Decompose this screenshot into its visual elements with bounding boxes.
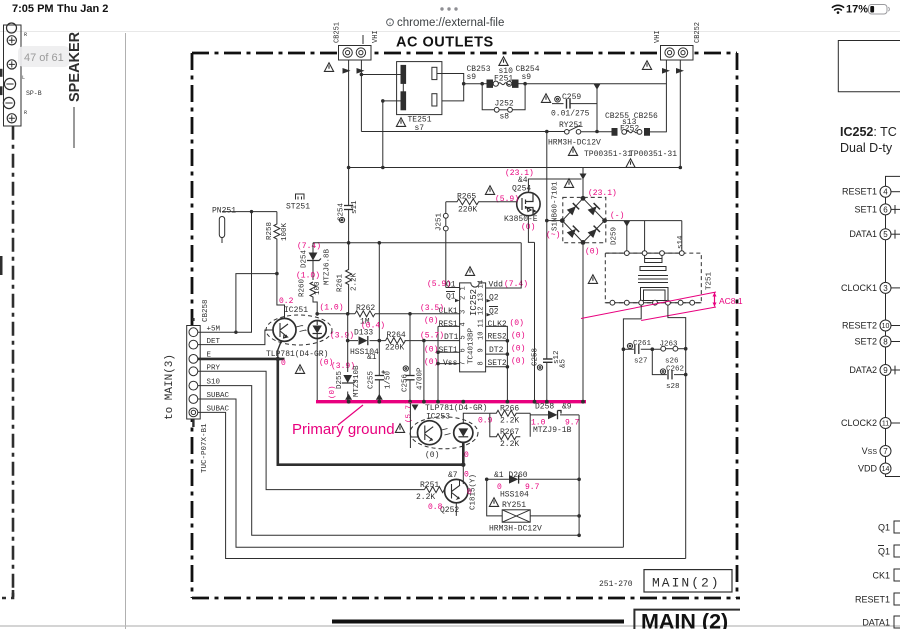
connector CB251 — [334, 22, 381, 60]
svg-text:7: 7 — [883, 447, 888, 456]
svg-text:VSS: VSS — [862, 446, 878, 456]
svg-text:RESET1: RESET1 — [855, 595, 890, 605]
capacitor C262 — [652, 349, 687, 391]
sub board wires from T251 — [623, 305, 685, 558]
resistor R260 — [299, 278, 323, 315]
left frame dash-dot border — [12, 126, 15, 598]
svg-text:TP00351-31: TP00351-31 — [584, 150, 632, 159]
svg-text:S1NB60-7101: S1NB60-7101 — [552, 181, 560, 231]
ground rail (magenta primary ground) — [316, 400, 586, 403]
svg-text:D254: D254 — [301, 249, 309, 268]
warning triangle s10 — [499, 57, 508, 66]
svg-text:2.2K: 2.2K — [500, 440, 519, 449]
svg-text:s9: s9 — [467, 73, 477, 82]
svg-text:&5: &5 — [560, 358, 568, 368]
svg-text:R260: R260 — [299, 278, 307, 297]
svg-text:14: 14 — [882, 466, 890, 473]
resistor R266 — [490, 405, 530, 426]
battery icon — [869, 5, 888, 15]
svg-text:SET1: SET1 — [439, 346, 458, 355]
svg-text:MTZJ10B: MTZJ10B — [353, 365, 361, 397]
svg-text:(3.5): (3.5) — [420, 304, 444, 313]
svg-text:(0): (0) — [425, 451, 439, 460]
svg-text:HRM3H-DC12V: HRM3H-DC12V — [489, 525, 542, 534]
svg-text:DT2: DT2 — [489, 346, 504, 355]
svg-text:SPEAKER: SPEAKER — [67, 31, 83, 102]
svg-text:0.8: 0.8 — [428, 503, 443, 512]
svg-text:6: 6 — [460, 348, 468, 352]
wire fuse to C259 node — [525, 83, 666, 85]
Primary ground label — [338, 405, 363, 425]
resistor R261 — [337, 213, 359, 314]
svg-text:HRM3H-DC12V: HRM3H-DC12V — [548, 139, 601, 148]
svg-text:(0): (0) — [329, 385, 337, 399]
svg-text:(0): (0) — [510, 319, 524, 328]
capacitor C256 — [402, 366, 425, 392]
svg-text:R: R — [24, 32, 27, 38]
svg-text:Q2: Q2 — [489, 294, 499, 303]
svg-text:11: 11 — [478, 319, 486, 327]
svg-text:RY251: RY251 — [502, 501, 526, 510]
lamp PN251 — [212, 207, 236, 244]
wire CB251pin2 to relay line — [361, 131, 565, 133]
transistor Q252 — [428, 465, 478, 516]
connector CB252 — [654, 22, 702, 60]
terminal - — [3, 97, 14, 108]
bridge left to rail — [547, 220, 563, 222]
capacitor C254 — [338, 168, 360, 223]
svg-text:Dual D-ty: Dual D-ty — [840, 141, 893, 155]
svg-text:10: 10 — [882, 323, 890, 330]
svg-text:s14: s14 — [677, 235, 685, 249]
wire CB252 pin2 down — [679, 60, 681, 168]
svg-text:Thu Jan 2: Thu Jan 2 — [57, 3, 108, 15]
svg-text:0: 0 — [464, 451, 469, 460]
wire arrows CB251 — [343, 68, 365, 74]
svg-text:(~): (~) — [546, 231, 560, 240]
svg-text:CB252: CB252 — [694, 22, 702, 43]
wire CB251 pin1 down — [348, 60, 350, 168]
svg-text:11: 11 — [882, 421, 889, 428]
pin CLOCK1 3 — [841, 282, 900, 293]
rail x534.5 Vdd box — [534, 242, 536, 401]
svg-text:4: 4 — [883, 188, 888, 197]
toolbar hairline — [0, 31, 900, 33]
svg-text:PN251: PN251 — [212, 207, 236, 216]
zener D255 — [329, 365, 361, 399]
transistor Q254 — [504, 176, 540, 232]
svg-text:Primary ground: Primary ground — [292, 421, 395, 438]
main schematic dash-dot frame — [192, 52, 737, 55]
resistor R265 — [446, 193, 517, 215]
svg-text:D259: D259 — [611, 227, 619, 245]
svg-text:8: 8 — [883, 338, 888, 347]
svg-text:2.2K: 2.2K — [500, 417, 519, 426]
pin DATA1 5 — [849, 229, 900, 240]
wifi icon — [832, 5, 843, 14]
svg-text:D255: D255 — [336, 370, 344, 389]
Q254 source wire — [528, 216, 534, 243]
diode D258 — [530, 403, 579, 436]
svg-text:&1: &1 — [367, 353, 377, 362]
svg-text:(3.9): (3.9) — [331, 362, 355, 371]
capacitor C261 — [622, 340, 661, 366]
pin CLOCK2 11 — [841, 418, 900, 429]
svg-text:s26: s26 — [665, 358, 679, 366]
svg-text:F251: F251 — [494, 75, 513, 84]
svg-text:Q1: Q1 — [446, 293, 456, 302]
svg-text:SET1: SET1 — [854, 204, 877, 214]
DATA1 list row — [862, 616, 900, 628]
svg-text:RESET1: RESET1 — [842, 187, 877, 197]
IC251 emitter to E wire — [278, 341, 282, 359]
right return rail — [578, 415, 580, 535]
svg-text:0.2: 0.2 — [279, 297, 294, 306]
MAIN (2) page title box — [634, 610, 740, 629]
svg-text:DATA1: DATA1 — [849, 229, 877, 239]
svg-text:9: 9 — [478, 348, 486, 352]
svg-text:L: L — [22, 75, 25, 81]
pin SET1 6 — [854, 204, 900, 215]
Q1 list row — [878, 521, 900, 533]
svg-text:1/50: 1/50 — [385, 370, 393, 389]
svg-text:TC4013BP: TC4013BP — [468, 327, 476, 364]
svg-text:C261: C261 — [633, 340, 652, 348]
svg-text:(0): (0) — [511, 345, 525, 354]
bridge rectifier S1NB60-7101 — [546, 181, 624, 257]
vertical R261 node to D255 — [347, 314, 349, 401]
svg-text:(0): (0) — [424, 358, 438, 367]
svg-text:(3.9): (3.9) — [330, 332, 354, 341]
zener D254 — [296, 242, 332, 285]
left frame bottom corner — [0, 590, 13, 598]
pink AC8.1 annotation — [581, 292, 743, 321]
status bar center dots — [440, 7, 443, 10]
svg-text:C256: C256 — [402, 373, 410, 392]
svg-text:s8: s8 — [500, 113, 510, 122]
optocoupler IC253 — [406, 400, 493, 460]
svg-text:VHI: VHI — [654, 30, 662, 43]
svg-text:220K: 220K — [385, 344, 404, 353]
svg-text:CB251: CB251 — [334, 22, 342, 43]
svg-text:0.01/275: 0.01/275 — [551, 110, 590, 119]
svg-text:SET2: SET2 — [854, 337, 877, 347]
capacitor C259 — [551, 89, 597, 132]
svg-text:(1.0): (1.0) — [320, 304, 344, 313]
RESET1 list row — [855, 593, 900, 605]
warning triangle C259 — [541, 94, 550, 103]
wire CB251 pin2 down — [360, 60, 362, 132]
transformer T251 — [605, 251, 713, 305]
wire arrows CB252 — [662, 68, 684, 74]
svg-text:3: 3 — [460, 310, 468, 314]
svg-text:s28: s28 — [666, 383, 680, 391]
svg-text:7: 7 — [460, 361, 468, 365]
svg-text:R264: R264 — [387, 331, 406, 340]
svg-text:(0.4): (0.4) — [361, 322, 385, 331]
wire CB252 pin1 down — [665, 60, 667, 132]
svg-text:IC251: IC251 — [284, 306, 308, 315]
svg-text:MAIN(2): MAIN(2) — [652, 576, 721, 591]
IC pin diagram frame — [886, 176, 900, 476]
fuse F252 — [605, 112, 666, 135]
svg-text:VDD: VDD — [858, 464, 878, 474]
svg-text:CLOCK1: CLOCK1 — [841, 283, 877, 293]
pin VDD 14 — [858, 463, 891, 474]
svg-text:C258: C258 — [532, 348, 540, 366]
wire DET — [198, 330, 273, 345]
svg-text:s11: s11 — [351, 200, 359, 214]
warning triangle TE251 — [396, 118, 405, 127]
vertical C255 feed — [378, 243, 380, 401]
resistor R251 — [416, 481, 445, 502]
svg-text:R261: R261 — [337, 273, 345, 292]
diode D259 output — [605, 221, 685, 251]
svg-text:HSS104: HSS104 — [500, 491, 529, 500]
svg-text:RESET2: RESET2 — [842, 321, 877, 331]
svg-text:17%: 17% — [846, 4, 868, 16]
svg-text:(0): (0) — [511, 357, 525, 366]
svg-text:SP-B: SP-B — [26, 90, 42, 97]
wire TE251 left pins — [361, 75, 401, 168]
svg-text:1: 1 — [460, 286, 468, 290]
diode D260 — [487, 471, 579, 500]
svg-text:(5.9): (5.9) — [495, 195, 519, 204]
svg-text:MAIN (2): MAIN (2) — [641, 610, 728, 629]
page bottom edge line — [0, 625, 900, 627]
svg-text:251-270: 251-270 — [599, 580, 633, 589]
svg-text:Q252: Q252 — [440, 506, 459, 515]
svg-text:DATA2: DATA2 — [849, 365, 877, 375]
svg-text:(7.4): (7.4) — [297, 242, 321, 251]
wire TE251 right pins — [437, 74, 482, 101]
Q254 drain wire — [528, 179, 581, 192]
svg-text:0: 0 — [464, 471, 469, 480]
relay coil RY251 — [487, 479, 579, 533]
vertical DT1 to ground — [423, 341, 425, 401]
wire PRY — [198, 371, 425, 489]
fuse F251 — [467, 65, 540, 87]
wire E (thick) — [198, 359, 464, 465]
svg-text:Q1: Q1 — [878, 523, 890, 533]
47 of 61 pill — [18, 46, 70, 67]
svg-text:(0): (0) — [424, 346, 438, 355]
svg-text:to MAIN(3): to MAIN(3) — [164, 354, 176, 420]
thick page divider line — [332, 620, 624, 624]
pin RESET1 4 — [842, 186, 900, 197]
svg-text:RES2: RES2 — [488, 333, 507, 342]
svg-text:C259: C259 — [562, 93, 581, 102]
outlet TE251 — [397, 62, 442, 133]
svg-text:TUC-P07X-B1: TUC-P07X-B1 — [201, 423, 209, 473]
svg-text:s27: s27 — [634, 358, 648, 366]
rail RY251 to ground (x547) — [546, 132, 548, 402]
svg-text:MTZJ9-1B: MTZJ9-1B — [533, 426, 572, 435]
svg-text:100K: 100K — [281, 222, 289, 241]
jumper J251 — [436, 202, 449, 288]
speaker pointer line — [73, 107, 75, 148]
svg-text:C1815(Y): C1815(Y) — [470, 474, 478, 510]
svg-text:8: 8 — [478, 361, 486, 365]
svg-text:F252: F252 — [620, 125, 639, 134]
Vdd rail y242.8 — [313, 242, 521, 244]
svg-text:220K: 220K — [458, 206, 477, 215]
svg-text:(5.7): (5.7) — [406, 400, 414, 423]
resistor R267 — [490, 413, 530, 449]
svg-text:T251: T251 — [706, 271, 714, 290]
bridge top feed — [582, 168, 584, 199]
svg-text:CK1: CK1 — [872, 571, 890, 581]
pin DATA2 9 — [849, 365, 900, 376]
svg-text:C262: C262 — [666, 366, 684, 374]
left page edge fragments — [0, 69, 3, 77]
IC253 LED wires — [463, 413, 490, 423]
svg-text:CLK2: CLK2 — [488, 320, 507, 329]
svg-text:R258: R258 — [266, 222, 274, 240]
resistor R258 — [222, 210, 289, 318]
svg-text:2: 2 — [460, 296, 468, 300]
svg-text:12: 12 — [478, 307, 486, 315]
svg-text:s9: s9 — [522, 73, 532, 82]
svg-text:(0): (0) — [424, 317, 438, 326]
spark gap ST251 — [286, 194, 310, 212]
wire +5M — [198, 212, 277, 333]
svg-text:0.9: 0.9 — [478, 417, 493, 426]
IC252 flip-flop body — [460, 280, 486, 372]
svg-text:(0): (0) — [585, 248, 599, 257]
svg-text:VHI: VHI — [372, 30, 380, 43]
svg-text:Q1: Q1 — [878, 547, 890, 557]
svg-text:AC8.1: AC8.1 — [719, 296, 743, 306]
svg-text:9: 9 — [883, 366, 888, 375]
svg-text:2.2K: 2.2K — [416, 493, 435, 502]
optocoupler IC251 — [266, 297, 332, 368]
connector CB258 — [187, 299, 230, 473]
svg-text:D258: D258 — [535, 403, 554, 412]
arrow junction C259 — [594, 84, 601, 90]
svg-text:C255: C255 — [368, 370, 376, 389]
vertical C256/CLK1 feed — [409, 314, 411, 401]
main horizontal rail y167 — [349, 167, 681, 169]
page separator line — [125, 33, 127, 629]
svg-text:4: 4 — [460, 322, 468, 326]
svg-text:chrome://external-file: chrome://external-file — [397, 17, 504, 29]
svg-text:&9: &9 — [562, 403, 572, 412]
svg-text:5: 5 — [460, 335, 468, 339]
svg-text:TP00351-31: TP00351-31 — [629, 150, 677, 159]
svg-text:Q2: Q2 — [489, 308, 499, 317]
pin Vss 7 — [862, 446, 891, 457]
svg-text:CLOCK2: CLOCK2 — [841, 418, 877, 428]
svg-text:J251: J251 — [436, 212, 444, 231]
svg-text:DATA1: DATA1 — [862, 618, 890, 628]
junction TE251 — [360, 73, 364, 77]
wire SUBAC2 — [198, 412, 686, 558]
svg-text:J263: J263 — [660, 341, 679, 349]
svg-text:47 of 61: 47 of 61 — [24, 52, 64, 64]
svg-text:AC OUTLETS: AC OUTLETS — [396, 35, 494, 51]
svg-text:3: 3 — [883, 284, 888, 293]
svg-text:5: 5 — [883, 230, 888, 239]
pin RESET2 10 — [842, 320, 900, 331]
jumper J252 — [482, 84, 525, 122]
terminal + — [7, 60, 16, 69]
svg-text:6: 6 — [883, 205, 888, 214]
svg-text:R262: R262 — [356, 304, 375, 313]
svg-text:RES1: RES1 — [439, 320, 458, 329]
IC251 LED cathode to ground — [316, 339, 318, 402]
capacitor C255 — [368, 370, 393, 389]
svg-text:0: 0 — [281, 359, 286, 368]
svg-text:ST251: ST251 — [286, 203, 310, 212]
svg-text:J252: J252 — [495, 100, 514, 109]
svg-text:(0): (0) — [511, 332, 525, 341]
wire S10 — [198, 386, 579, 536]
wire SUBAC1 — [198, 399, 624, 547]
svg-text:(-): (-) — [610, 212, 624, 221]
svg-text:R: R — [24, 110, 27, 116]
warning triangle near CB251 — [324, 63, 333, 72]
pin SET2 8 — [854, 336, 900, 347]
svg-text:R251: R251 — [420, 481, 439, 490]
warning triangle near CB252 — [642, 61, 651, 70]
svg-text:CB258: CB258 — [202, 299, 210, 322]
svg-text:7:05 PM: 7:05 PM — [12, 3, 54, 15]
relay contact RY251 — [548, 121, 612, 148]
capacitor C258 — [532, 348, 568, 370]
speaker terminal strip SP-B — [4, 25, 22, 126]
svg-text:2.2K: 2.2K — [351, 272, 359, 291]
bridge bottom to ground — [582, 242, 584, 401]
svg-text:13: 13 — [478, 293, 486, 301]
jumper J263 — [660, 341, 688, 366]
junction fuse ends — [480, 82, 484, 86]
svg-text:(23.1): (23.1) — [588, 189, 617, 198]
svg-text:10: 10 — [478, 332, 486, 340]
svg-text:14: 14 — [478, 280, 486, 288]
CK1 list row — [872, 569, 900, 581]
svg-text:4700P: 4700P — [417, 367, 425, 390]
svg-text:IC252: TC: IC252: TC — [840, 125, 897, 139]
top-right partial box — [838, 41, 900, 92]
svg-text:MTZJ6.8B: MTZJ6.8B — [324, 248, 332, 285]
Q1bar list row — [878, 545, 900, 557]
